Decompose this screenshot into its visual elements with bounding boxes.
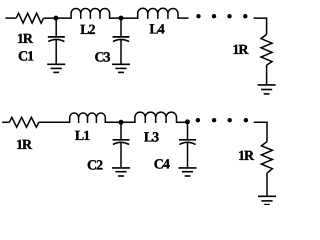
node A junction dot bbox=[53, 16, 58, 21]
svg-text:1R: 1R bbox=[238, 149, 255, 164]
ground under C1 bbox=[47, 64, 65, 72]
inductor L2 bbox=[71, 8, 110, 18]
capacitor C1 curved plate bbox=[48, 39, 64, 41]
capacitor C2 straight plate bbox=[113, 139, 130, 141]
resistor R-in top (1R) bbox=[16, 13, 43, 23]
node C junction dot bbox=[119, 120, 124, 125]
ground bottom-right bbox=[258, 196, 276, 204]
capacitor C3 straight plate bbox=[113, 36, 130, 38]
ellipsis dots bottom bbox=[196, 118, 248, 122]
inductor L1 bbox=[70, 113, 106, 123]
wire top R to node A bbox=[44, 17, 72, 19]
ground under C2 bbox=[112, 168, 130, 176]
ground under C3 bbox=[112, 64, 130, 72]
node D junction dot bbox=[185, 119, 190, 124]
capacitor C4 top lead bbox=[187, 122, 189, 139]
svg-text:1R: 1R bbox=[17, 32, 34, 47]
capacitor C2 bottom lead bbox=[120, 143, 122, 167]
capacitor C3 bottom lead bbox=[120, 40, 122, 64]
svg-text:1R: 1R bbox=[16, 138, 33, 153]
capacitor C1 bottom lead bbox=[55, 40, 57, 64]
svg-text:C4: C4 bbox=[154, 158, 170, 173]
wire top to load bbox=[254, 18, 267, 34]
wire top input stub bbox=[5, 17, 16, 19]
ellipsis dots top bbox=[196, 14, 247, 18]
svg-text:C1: C1 bbox=[18, 49, 34, 64]
capacitor C1 top lead bbox=[55, 18, 57, 36]
node B junction dot bbox=[119, 16, 124, 21]
svg-text:L3: L3 bbox=[144, 131, 159, 146]
ground under C4 bbox=[179, 168, 197, 176]
capacitor C1 straight plate bbox=[48, 36, 65, 38]
svg-text:L1: L1 bbox=[75, 129, 90, 144]
svg-text:L2: L2 bbox=[80, 23, 95, 38]
capacitor C4 curved plate bbox=[179, 142, 195, 144]
inductor L4 bbox=[138, 8, 178, 19]
wire L1 to L3 bbox=[105, 121, 135, 123]
wire R-load bottom to ground bbox=[266, 173, 268, 195]
svg-text:C2: C2 bbox=[87, 158, 103, 173]
wire bottom R to L1 bbox=[39, 121, 70, 123]
capacitor C2 top lead bbox=[120, 122, 122, 139]
wire L3 to node D bbox=[177, 121, 190, 123]
svg-text:C3: C3 bbox=[94, 50, 110, 65]
capacitor C4 bottom lead bbox=[187, 143, 189, 167]
resistor R-in bottom (1R) bbox=[9, 117, 39, 127]
wire L2 to node B bbox=[110, 17, 138, 19]
capacitor C3 curved plate bbox=[113, 39, 129, 41]
ground top-right bbox=[258, 85, 276, 94]
wire bottom to load bbox=[254, 122, 267, 141]
resistor R-load top (1R) vertical bbox=[261, 34, 272, 65]
capacitor C3 top lead bbox=[120, 18, 122, 36]
capacitor C4 straight plate bbox=[179, 139, 196, 141]
capacitor C2 curved plate bbox=[113, 142, 129, 144]
wire R-load top to ground bbox=[266, 65, 268, 84]
svg-text:L4: L4 bbox=[149, 23, 164, 38]
resistor R-load bottom (1R) vertical bbox=[261, 142, 272, 174]
inductor L3 bbox=[135, 112, 177, 123]
svg-text:1R: 1R bbox=[232, 43, 249, 58]
wire L4 output stub bbox=[178, 17, 189, 19]
wire bottom input stub bbox=[2, 121, 9, 123]
